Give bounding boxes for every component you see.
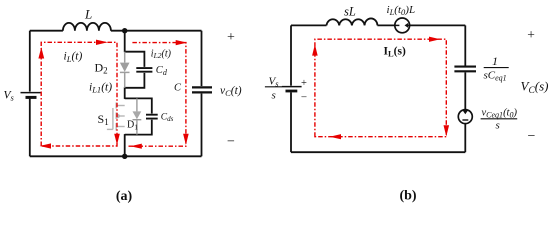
svg-text:−: − [227, 135, 235, 150]
source vCeq1(t0)/s arrow (points down) [463, 111, 468, 115]
battery Vs short plate [26, 96, 37, 99]
wire: circuit (a) left edge lower [29, 99, 31, 157]
arrow down (loop iL1 right) [114, 134, 120, 145]
node: junction dot top of middle branch [122, 28, 127, 33]
arrow up (loop IL left) [312, 44, 318, 55]
arrow right (loop IL top) [429, 37, 440, 42]
wire: Cd parallel box [125, 52, 145, 88]
svg-text:iL(t0)L: iL(t0)L [387, 4, 416, 17]
wire: red loop iL2 (a, right mesh, dash-dot) [129, 43, 186, 147]
wire: circuit (b) right edge upper [464, 25, 466, 65]
wire: top between sL and source [377, 24, 394, 26]
source iL(t0)L minus stub [395, 24, 399, 26]
inductor L (a) [63, 23, 111, 31]
svg-text:(b): (b) [399, 189, 416, 204]
svg-text:1: 1 [492, 54, 498, 68]
wire: middle branch upper (junction to Cd box) [124, 31, 126, 53]
svg-text:iL(t): iL(t) [64, 51, 83, 64]
wire: circuit (b) bottom edge [291, 151, 465, 153]
value label 1/sCeq1 bar [484, 67, 509, 69]
svg-text:Cds: Cds [161, 112, 174, 123]
wire: circuit (a) right edge upper [201, 31, 203, 86]
svg-text:iL2(t): iL2(t) [151, 48, 172, 60]
battery Vs/s long plate [282, 86, 302, 88]
source vCeq1(t0)/s minus bar [462, 119, 468, 121]
source iL(t0)L arrow (points left) [405, 23, 409, 28]
wire: right edge between cap and source [464, 72, 466, 109]
svg-text:vCeq1(t0): vCeq1(t0) [482, 107, 518, 119]
wire: circuit (a) right edge lower [201, 94, 203, 157]
wire: circuit (b) top-right segment [410, 24, 466, 26]
svg-text:vC(t): vC(t) [220, 85, 242, 98]
arrow down (loop IL right) [444, 125, 450, 136]
battery Vs long plate [21, 92, 42, 94]
wire: circuit (a) top-right segment [111, 30, 202, 32]
arrow left (loop iL2 bottom) [130, 144, 142, 149]
svg-text:+: + [301, 78, 307, 89]
wire: middle branch lower (S1 box to bottom junction) [124, 134, 126, 156]
transistor S1 (grey MOSFET) [107, 103, 125, 131]
arrow left (loop iL1 bottom) [40, 143, 51, 148]
capacitor 1/sCeq1 plates [454, 67, 476, 72]
svg-text:D2: D2 [95, 61, 108, 76]
svg-text:Vs: Vs [4, 90, 15, 103]
wire: red loop IL(s) (b, dash-dot) [315, 39, 446, 137]
diode D1 (grey, body diode) [133, 98, 142, 134]
capacitor Cd plates [136, 68, 152, 72]
svg-text:−: − [528, 129, 536, 144]
svg-text:S1: S1 [98, 112, 109, 127]
wire: circuit (b) top-left segment [291, 24, 327, 26]
svg-text:L: L [84, 7, 92, 22]
wire: S1/D1/Cds parallel box [125, 98, 152, 134]
value label Vs/s fraction bar [265, 86, 282, 88]
svg-text:IL(s): IL(s) [384, 46, 406, 59]
source vCeq1(t0)/s circle [458, 110, 472, 124]
svg-text:iL1(t): iL1(t) [89, 82, 112, 95]
source iL(t0)L circle [395, 18, 410, 33]
svg-text:s: s [272, 90, 276, 102]
svg-text:Cd: Cd [156, 65, 168, 77]
wire: circuit (a) bottom edge [30, 155, 202, 157]
svg-text:s: s [496, 120, 500, 132]
arrow right (loop iL2 top) [176, 40, 187, 45]
wire: middle branch between Cd box and S1 box [124, 87, 126, 99]
svg-text:(a): (a) [116, 189, 133, 204]
arrow right (loop iL1 top) [96, 40, 108, 45]
wire: red loop iL1 (a, left mesh, dash-dot) [41, 42, 117, 146]
svg-text:+: + [527, 27, 535, 42]
capacitor Cds plates [146, 115, 158, 119]
arrow down (loop iL2 right) [183, 134, 189, 145]
node: junction dot bottom of middle branch [122, 154, 127, 159]
svg-text:sL: sL [344, 5, 356, 19]
svg-text:C: C [174, 83, 182, 94]
svg-text:−: − [301, 92, 307, 104]
wire: circuit (a) top-left segment [30, 30, 63, 32]
svg-text:VC(s): VC(s) [521, 79, 549, 96]
diode D2 (grey) [120, 52, 130, 88]
wire: circuit (b) right edge lower [464, 124, 466, 153]
svg-text:+: + [227, 30, 235, 45]
battery Vs/s short plate [286, 90, 298, 93]
wire: circuit (b) left edge upper [290, 25, 292, 85]
capacitor C plates [192, 87, 212, 92]
wire: circuit (b) left edge lower [290, 92, 292, 152]
inductor sL [327, 18, 378, 25]
svg-text:sCeq1: sCeq1 [484, 70, 507, 83]
arrow up (loop iL1 left) [38, 47, 44, 58]
value label vCeq1(t0)/s bar [481, 118, 518, 120]
wire: circuit (a) left edge upper [29, 31, 31, 92]
wire: source right stub [408, 24, 410, 26]
arrow left (loop IL bottom) [330, 134, 341, 139]
